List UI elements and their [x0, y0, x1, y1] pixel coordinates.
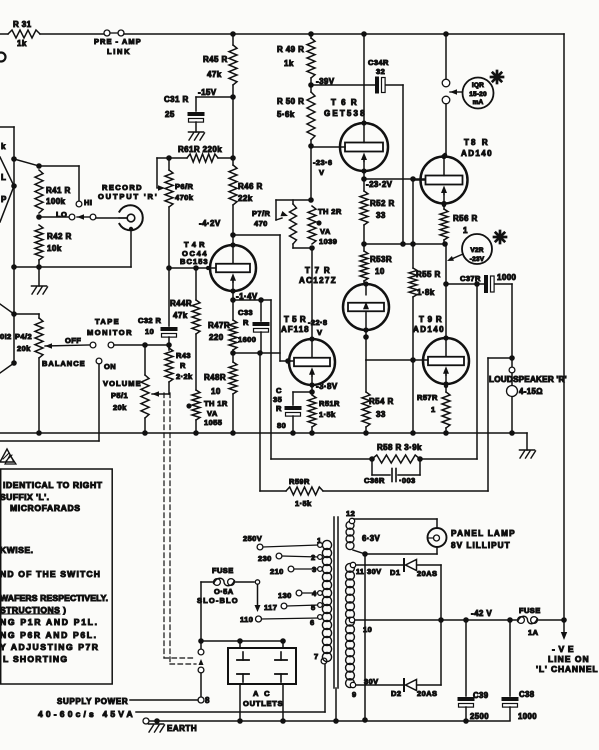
svg-text:R 31: R 31 [13, 20, 32, 29]
svg-text:R58 R 3·9k: R58 R 3·9k [377, 443, 422, 452]
svg-text:LINE ON: LINE ON [548, 654, 589, 664]
svg-text:1: 1 [431, 405, 436, 414]
svg-text:R59R: R59R [289, 477, 310, 486]
svg-text:1k: 1k [284, 59, 294, 68]
svg-text:AC127Z: AC127Z [299, 276, 336, 285]
svg-text:2: 2 [311, 553, 316, 562]
svg-text:P7/R: P7/R [252, 209, 270, 218]
svg-text:MICROFARADS: MICROFARADS [10, 503, 80, 513]
svg-text:IQR: IQR [472, 82, 484, 89]
svg-text:1055: 1055 [204, 418, 222, 427]
svg-text:30V: 30V [364, 677, 379, 686]
svg-text:R52 R: R52 R [370, 199, 395, 208]
svg-text:1·8k: 1·8k [417, 288, 435, 297]
svg-text:·003: ·003 [399, 476, 416, 485]
svg-text:47k: 47k [173, 311, 188, 320]
svg-text:3: 3 [312, 565, 317, 574]
svg-text:32: 32 [376, 67, 385, 76]
svg-text:T9R: T9R [419, 315, 442, 324]
svg-text:C31 R: C31 R [164, 95, 189, 104]
svg-text:-22·8: -22·8 [308, 318, 328, 327]
svg-text:C39: C39 [473, 691, 489, 700]
svg-text:R61R 220k: R61R 220k [178, 145, 222, 154]
svg-text:1000: 1000 [497, 273, 517, 282]
svg-text:-42 V: -42 V [471, 609, 492, 618]
svg-text:SUPPLY POWER: SUPPLY POWER [57, 697, 128, 706]
svg-text:R54 R: R54 R [369, 397, 394, 406]
svg-text:D2: D2 [391, 689, 401, 698]
svg-text:AD140: AD140 [413, 325, 444, 334]
svg-text:T5R: T5R [284, 315, 306, 324]
svg-text:10: 10 [145, 327, 154, 336]
svg-text:mA: mA [473, 99, 484, 106]
svg-text:L SHORTING: L SHORTING [3, 654, 67, 664]
svg-text:250V: 250V [243, 534, 262, 543]
svg-text:T 7 R: T 7 R [305, 266, 330, 275]
svg-text:OFF: OFF [65, 336, 81, 345]
svg-text:100k: 100k [46, 197, 66, 206]
svg-text:470: 470 [254, 219, 268, 228]
svg-text:PRE - AMP: PRE - AMP [94, 37, 141, 46]
svg-text:k: k [1, 142, 6, 151]
svg-text:-23·2V: -23·2V [366, 180, 393, 189]
svg-text:VA: VA [320, 227, 331, 236]
svg-text:IDENTICAL TO RIGHT: IDENTICAL TO RIGHT [3, 480, 103, 490]
svg-text:P4/2: P4/2 [15, 332, 32, 341]
svg-text:12: 12 [346, 509, 355, 518]
svg-text:TAPE: TAPE [95, 317, 119, 326]
svg-text:-4·2V: -4·2V [199, 219, 221, 228]
svg-text:230: 230 [258, 554, 272, 563]
svg-text:8: 8 [205, 696, 210, 705]
svg-text:R47R: R47R [208, 321, 230, 330]
svg-text:C36R: C36R [364, 476, 385, 485]
svg-text:R55 R: R55 R [416, 270, 441, 279]
svg-text:VA: VA [207, 409, 218, 418]
svg-text:HI: HI [84, 198, 92, 207]
svg-text:1·5k: 1·5k [295, 499, 312, 508]
svg-text:T4R: T4R [184, 240, 205, 249]
svg-text:SLO-BLO: SLO-BLO [197, 596, 238, 605]
svg-text:V: V [317, 328, 322, 337]
svg-text:R: R [243, 318, 249, 327]
svg-text:25: 25 [165, 110, 175, 119]
svg-text:10k: 10k [47, 244, 62, 253]
svg-text:VOLUME: VOLUME [103, 379, 141, 388]
svg-text:C32 R: C32 R [138, 316, 161, 325]
svg-text:C33: C33 [238, 308, 253, 317]
svg-text:P6/R: P6/R [175, 182, 193, 191]
svg-text:130: 130 [278, 591, 292, 600]
svg-text:LINK: LINK [107, 47, 130, 56]
svg-text:C38: C38 [519, 690, 535, 699]
svg-text:47k: 47k [207, 70, 222, 79]
svg-text:33: 33 [376, 410, 386, 419]
svg-text:-23V: -23V [470, 256, 485, 263]
svg-text:1A: 1A [528, 628, 539, 637]
svg-text:V: V [319, 168, 324, 177]
svg-text:P: P [1, 195, 7, 204]
svg-text:OUTLETS: OUTLETS [243, 699, 283, 708]
svg-text:8V LILLIPUT: 8V LILLIPUT [451, 541, 510, 550]
svg-text:5: 5 [311, 603, 316, 612]
svg-text:30V: 30V [367, 567, 382, 576]
svg-text:FUSE: FUSE [212, 566, 234, 575]
svg-text:20AS: 20AS [417, 569, 437, 578]
svg-text:C37R: C37R [460, 274, 481, 283]
svg-text:1·5k: 1·5k [319, 410, 336, 419]
svg-text:1: 1 [317, 536, 322, 545]
svg-text:LOUDSPEAKER 'R': LOUDSPEAKER 'R' [489, 375, 567, 384]
svg-text:'L' CHANNEL: 'L' CHANNEL [536, 664, 598, 674]
svg-text:O·5A: O·5A [214, 587, 234, 596]
svg-text:EARTH: EARTH [167, 724, 197, 733]
svg-text:FUSE: FUSE [519, 606, 541, 615]
svg-text:-3·8V: -3·8V [316, 382, 338, 391]
svg-text:R53R: R53R [370, 255, 392, 264]
svg-text:470k: 470k [175, 193, 194, 202]
svg-text:L: L [1, 173, 6, 182]
svg-text:1039: 1039 [319, 237, 337, 246]
svg-text:TH 1R: TH 1R [204, 399, 228, 408]
svg-text:R: R [276, 404, 282, 413]
svg-text:SUFFIX 'L'.: SUFFIX 'L'. [0, 492, 49, 502]
svg-text:AF118: AF118 [281, 325, 309, 334]
svg-text:2·2k: 2·2k [176, 372, 193, 381]
svg-text:R51R: R51R [319, 399, 340, 408]
svg-text:15-20: 15-20 [469, 91, 487, 98]
svg-text:KWISE.: KWISE. [0, 545, 33, 555]
svg-text:5·6k: 5·6k [277, 110, 295, 119]
svg-text:35: 35 [273, 395, 282, 404]
svg-text:NG P6R AND P6L.: NG P6R AND P6L. [0, 630, 96, 640]
svg-text:4: 4 [312, 589, 317, 598]
svg-text:1k: 1k [17, 39, 27, 48]
svg-text:AD140: AD140 [461, 149, 492, 158]
svg-text:V2R: V2R [470, 247, 483, 254]
svg-text:R42 R: R42 R [47, 232, 72, 241]
svg-text:ON: ON [104, 362, 116, 371]
svg-text:NG P1R AND P1L.: NG P1R AND P1L. [0, 617, 97, 627]
svg-text:R 49 R: R 49 R [277, 45, 304, 54]
svg-text:1600: 1600 [238, 335, 256, 344]
svg-text:2500: 2500 [470, 712, 489, 721]
svg-text:BALANCE: BALANCE [42, 359, 85, 368]
svg-text:R56 R: R56 R [453, 214, 478, 223]
svg-text:OUTPUT 'R': OUTPUT 'R' [98, 192, 157, 201]
svg-text:10: 10 [363, 625, 372, 634]
svg-text:0I2: 0I2 [0, 332, 12, 341]
svg-text:PANEL LAMP: PANEL LAMP [451, 529, 515, 538]
svg-text:10: 10 [375, 267, 385, 276]
svg-text:80: 80 [277, 421, 286, 430]
svg-text:117: 117 [264, 603, 277, 612]
svg-text:7: 7 [314, 652, 319, 661]
svg-text:ND OF THE SWITCH: ND OF THE SWITCH [0, 569, 100, 579]
svg-text:BC153: BC153 [180, 257, 208, 266]
svg-text:9: 9 [352, 690, 357, 699]
svg-text:11: 11 [356, 569, 364, 576]
svg-text:C34R: C34R [368, 58, 389, 67]
svg-text:TH 2R: TH 2R [318, 207, 342, 216]
svg-text:R46 R: R46 R [238, 182, 263, 191]
svg-text:4-15Ω: 4-15Ω [519, 387, 543, 396]
svg-text:-15V: -15V [198, 88, 217, 97]
svg-text:6·3V: 6·3V [362, 534, 380, 543]
svg-text:33: 33 [376, 211, 386, 220]
svg-text:RECORD: RECORD [102, 183, 142, 192]
svg-text:220: 220 [209, 333, 224, 342]
svg-text:T6R: T6R [331, 98, 357, 107]
svg-text:R43: R43 [176, 351, 191, 360]
svg-text:20k: 20k [17, 344, 31, 353]
svg-text:R44R: R44R [170, 299, 192, 308]
svg-text:20k: 20k [113, 403, 127, 412]
svg-text:R41 R: R41 R [46, 186, 71, 195]
svg-text:22k: 22k [238, 194, 253, 203]
svg-text:R 50 R: R 50 R [277, 97, 304, 106]
svg-text:P5/1: P5/1 [111, 391, 128, 400]
svg-text:-23·6: -23·6 [313, 158, 333, 167]
svg-text:R57R: R57R [417, 393, 438, 402]
svg-text:20AS: 20AS [417, 689, 437, 698]
svg-text:D1: D1 [390, 568, 400, 577]
svg-text:R48R: R48R [204, 373, 226, 382]
svg-text:110: 110 [240, 615, 253, 624]
svg-text:R: R [180, 361, 186, 370]
svg-text:A C: A C [253, 689, 270, 698]
svg-text:1: 1 [463, 226, 468, 235]
svg-text:210: 210 [270, 567, 284, 576]
svg-text:WAFERS RESPECTIVELY.: WAFERS RESPECTIVELY. [0, 593, 108, 603]
svg-text:10: 10 [211, 387, 221, 396]
svg-text:1000: 1000 [518, 712, 537, 721]
svg-text:C: C [276, 386, 282, 395]
svg-text:R45 R: R45 R [203, 55, 228, 64]
svg-text:6: 6 [310, 618, 315, 627]
